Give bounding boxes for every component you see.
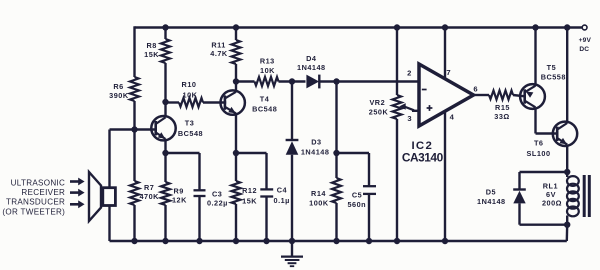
svg-text:T3: T3 <box>185 119 195 128</box>
svg-text:BC548: BC548 <box>252 104 277 113</box>
svg-text:R10: R10 <box>182 80 197 89</box>
svg-text:SL100: SL100 <box>527 149 551 158</box>
svg-text:470K: 470K <box>139 192 159 201</box>
svg-text:4: 4 <box>450 113 455 122</box>
svg-text:1N4148: 1N4148 <box>297 63 326 72</box>
svg-text:100K: 100K <box>309 199 329 208</box>
svg-text:D5: D5 <box>486 187 496 196</box>
svg-text:10K: 10K <box>183 90 198 99</box>
svg-text:0.1µ: 0.1µ <box>274 196 290 205</box>
svg-text:6: 6 <box>473 85 478 94</box>
svg-text:R6: R6 <box>113 82 123 91</box>
svg-text:1N4148: 1N4148 <box>477 197 506 206</box>
svg-text:390K: 390K <box>109 91 129 100</box>
svg-text:7: 7 <box>446 68 451 77</box>
svg-text:33Ω: 33Ω <box>494 112 509 121</box>
svg-text:4.7K: 4.7K <box>210 49 228 58</box>
svg-text:200Ω: 200Ω <box>542 198 562 207</box>
svg-text:R12: R12 <box>242 186 257 195</box>
svg-text:TRANSDUCER: TRANSDUCER <box>6 198 65 207</box>
svg-text:C3: C3 <box>212 189 222 198</box>
svg-text:10K: 10K <box>260 66 275 75</box>
svg-text:RECEIVER: RECEIVER <box>21 188 65 197</box>
svg-text:R14: R14 <box>311 189 326 198</box>
svg-text:0.22µ: 0.22µ <box>207 198 228 207</box>
svg-text:D3: D3 <box>311 137 321 146</box>
svg-text:CA3140: CA3140 <box>402 151 444 165</box>
svg-text:250K: 250K <box>369 108 389 117</box>
svg-text:C5: C5 <box>352 191 362 200</box>
svg-text:T4: T4 <box>260 95 270 104</box>
svg-text:R13: R13 <box>260 56 275 65</box>
svg-text:DC: DC <box>579 46 589 53</box>
svg-text:3: 3 <box>407 114 412 123</box>
svg-text:R7: R7 <box>144 183 154 192</box>
svg-text:D4: D4 <box>306 54 317 63</box>
svg-text:15K: 15K <box>242 197 257 206</box>
svg-text:BC548: BC548 <box>178 129 203 138</box>
svg-text:R15: R15 <box>495 103 510 112</box>
svg-text:2: 2 <box>407 68 412 77</box>
svg-text:T6: T6 <box>534 139 544 148</box>
svg-text:1N4148: 1N4148 <box>301 148 330 157</box>
svg-text:T5: T5 <box>547 63 557 72</box>
svg-text:15K: 15K <box>144 50 159 59</box>
svg-text:560n: 560n <box>347 200 366 209</box>
svg-text:R9: R9 <box>174 187 184 196</box>
svg-text:(OR TWEETER): (OR TWEETER) <box>2 207 65 216</box>
svg-text:C4: C4 <box>277 185 288 194</box>
svg-text:VR2: VR2 <box>369 98 385 107</box>
svg-text:ULTRASONIC: ULTRASONIC <box>11 178 66 187</box>
svg-text:+9V: +9V <box>579 37 592 44</box>
svg-text:BC558: BC558 <box>541 72 566 81</box>
svg-text:12K: 12K <box>172 196 187 205</box>
